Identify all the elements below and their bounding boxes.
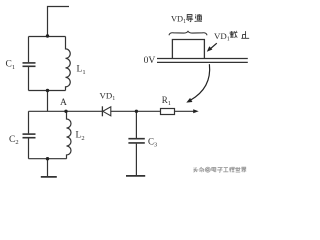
svg-text:R1: R1 xyxy=(162,95,171,107)
svg-text:C3: C3 xyxy=(148,136,157,148)
svg-text:C2: C2 xyxy=(9,135,19,146)
svg-text:L1: L1 xyxy=(77,65,86,76)
svg-text:L2: L2 xyxy=(76,131,85,142)
svg-text:VD1: VD1 xyxy=(214,31,230,43)
svg-text:A: A xyxy=(60,98,67,108)
svg-text:0V: 0V xyxy=(144,55,156,66)
svg-text:VD1: VD1 xyxy=(100,90,116,102)
svg-text:VD1: VD1 xyxy=(171,15,186,26)
svg-text:C1: C1 xyxy=(6,60,16,71)
